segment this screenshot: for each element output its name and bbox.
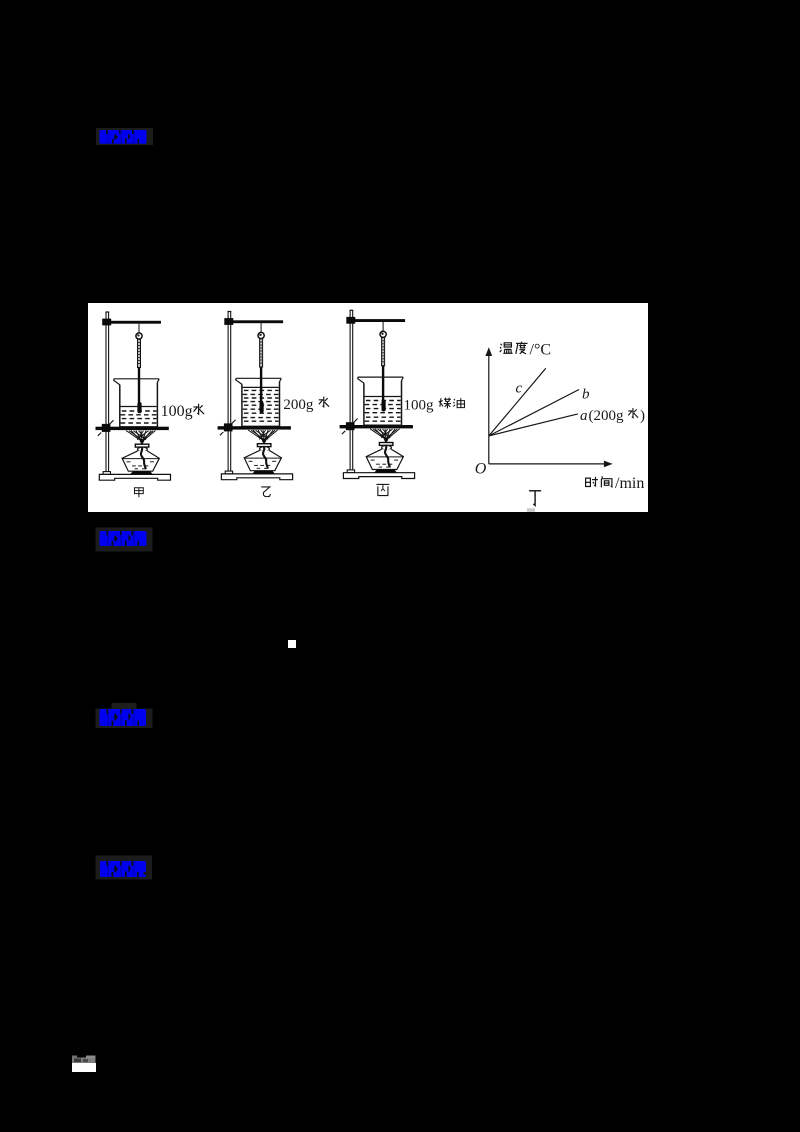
label 200g shui xyxy=(283,397,329,413)
label 100g shui xyxy=(161,403,204,420)
svg-text:200g: 200g xyxy=(283,397,314,413)
stand yi xyxy=(218,312,293,480)
blue tag 3 (detail label) xyxy=(95,702,155,729)
label a (200g shui) xyxy=(580,408,645,424)
svg-text:(200g: (200g xyxy=(589,408,624,424)
char yi xyxy=(261,487,270,497)
svg-text:O: O xyxy=(475,461,487,478)
gray smudge under ding xyxy=(527,508,535,512)
water in beaker yi xyxy=(243,387,279,421)
char ding xyxy=(529,491,541,506)
svg-text:/°C: /°C xyxy=(530,342,552,359)
blue tag 1 (answer label) xyxy=(95,127,155,147)
blue tag 2 (analysis label) xyxy=(95,527,155,552)
curve a xyxy=(489,414,578,436)
svg-text:b: b xyxy=(582,386,590,402)
graph y-axis xyxy=(488,354,490,464)
svg-text:100g: 100g xyxy=(161,403,193,420)
axis label wendu xyxy=(500,342,551,359)
label 100g meiyou xyxy=(404,398,465,414)
svg-text:/min: /min xyxy=(615,475,644,492)
water in beaker jia xyxy=(121,407,157,424)
svg-text:c: c xyxy=(516,380,523,396)
figure xyxy=(88,303,648,512)
svg-text:): ) xyxy=(640,408,645,424)
graph x-axis xyxy=(489,463,605,465)
page number mark bottom-left xyxy=(70,1053,100,1075)
svg-text:100g: 100g xyxy=(404,398,435,414)
white square formula placeholder xyxy=(288,640,296,648)
char bing xyxy=(376,484,389,495)
blue tag 4 (final label) xyxy=(95,855,155,881)
stand bing xyxy=(340,310,415,478)
axis label shijian xyxy=(586,475,645,492)
svg-text:a: a xyxy=(580,408,588,424)
char jia xyxy=(135,488,144,498)
stand jia xyxy=(96,312,171,480)
curve c xyxy=(489,368,546,436)
kerosene in beaker bing xyxy=(365,397,401,422)
curve b xyxy=(489,390,579,436)
